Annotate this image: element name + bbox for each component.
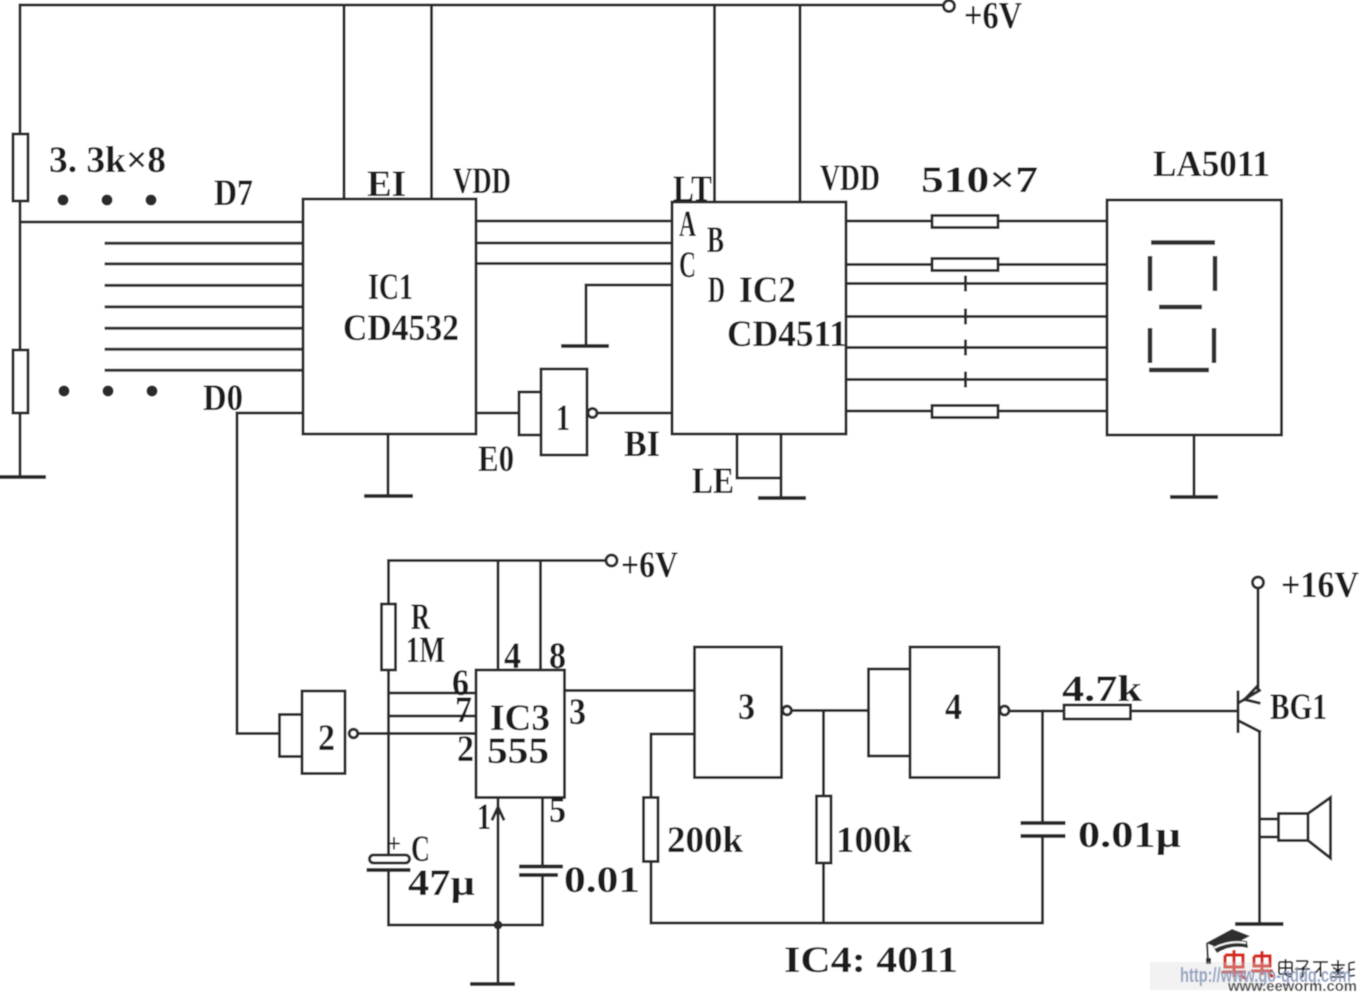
capacitor C 47u	[370, 855, 410, 863]
wire cap to rail	[387, 871, 390, 925]
capacitor 0.01	[521, 867, 561, 876]
svg-text:0.01µ: 0.01µ	[1078, 815, 1181, 856]
wire pin7	[389, 715, 477, 718]
svg-text:LA5011: LA5011	[1153, 144, 1270, 185]
NAND gate 3	[695, 647, 782, 778]
svg-text:BG1: BG1	[1270, 687, 1327, 728]
svg-text:5: 5	[549, 790, 566, 831]
dashed ellipsis line	[964, 277, 967, 386]
NAND gate 4	[869, 669, 911, 756]
ground IC1	[387, 434, 390, 494]
wire collector	[1257, 588, 1260, 691]
svg-text:IC1: IC1	[368, 267, 413, 308]
wire pin1 stub	[497, 798, 500, 926]
svg-text:510×7: 510×7	[921, 160, 1038, 201]
svg-text:LT: LT	[673, 169, 712, 210]
segment wire b	[846, 263, 1107, 266]
svg-text:1: 1	[556, 398, 570, 439]
wire LT stub	[713, 5, 716, 202]
wire D7	[20, 221, 303, 224]
wire gate4 out	[1009, 710, 1064, 713]
segment wire e	[846, 346, 1107, 349]
resistor 3.3k upper	[13, 134, 28, 201]
svg-text:B: B	[707, 220, 724, 261]
svg-text:200k: 200k	[667, 820, 743, 861]
wire A	[476, 220, 672, 223]
resistor 4.7k	[1064, 705, 1131, 719]
ground left chain	[0, 475, 44, 479]
svg-text:+6V: +6V	[964, 0, 1022, 37]
wire 200k to rail	[650, 862, 653, 924]
dots row upper	[58, 195, 157, 206]
svg-text:4.7k: 4.7k	[1062, 669, 1143, 710]
svg-text:+6V: +6V	[621, 545, 678, 586]
wire emitter down	[1258, 732, 1261, 924]
svg-text:VDD: VDD	[820, 158, 880, 199]
wire VDD stub IC1	[430, 5, 433, 199]
svg-text:E0: E0	[478, 439, 514, 480]
dots row lower	[59, 386, 158, 397]
junction dot	[494, 921, 503, 930]
segment wire c	[846, 282, 1107, 285]
segment wire g	[846, 410, 1107, 413]
wire gate3 to gate4	[792, 709, 869, 712]
svg-text:2: 2	[318, 718, 335, 759]
wire 100k drop	[822, 711, 825, 797]
inverter gate 1	[519, 392, 541, 435]
svg-text:3. 3k×8: 3. 3k×8	[49, 140, 166, 181]
svg-text:1M: 1M	[406, 630, 445, 671]
svg-text:100k: 100k	[836, 820, 912, 861]
svg-text:CD4532: CD4532	[343, 308, 459, 349]
wire below lower resistor	[19, 413, 22, 474]
data line 2	[106, 242, 303, 245]
capacitor 0.01u	[1023, 823, 1064, 836]
NAND gate 2	[280, 715, 303, 757]
data line 5	[106, 305, 303, 308]
svg-text:47µ: 47µ	[408, 863, 475, 904]
resistor 100k	[817, 796, 832, 863]
ground LA5011	[1193, 435, 1196, 495]
wire 100k to rail	[822, 863, 825, 923]
svg-text:3: 3	[738, 687, 755, 728]
wire 4.7k to base	[1131, 710, 1236, 713]
wire pin2	[358, 732, 477, 735]
data line 4	[106, 284, 303, 287]
resistor R 1M	[382, 604, 396, 670]
speaker	[1279, 814, 1309, 841]
bottom rail IC4	[651, 922, 1043, 925]
svg-text:C: C	[679, 245, 696, 286]
+6V top terminal	[944, 1, 955, 12]
segment wire d	[846, 315, 1107, 318]
IC3 555 box	[476, 670, 565, 798]
svg-text:3: 3	[569, 692, 586, 733]
wire pin8 stub	[539, 561, 542, 671]
wire D	[586, 285, 672, 344]
IC2 CD4511 box	[672, 202, 846, 434]
svg-text:EI: EI	[367, 164, 406, 205]
wire gate3 lower input	[651, 734, 695, 798]
resistor 510 a	[932, 216, 998, 228]
resistor 200k	[644, 798, 659, 862]
svg-text:VDD: VDD	[453, 161, 511, 202]
svg-text:555: 555	[487, 731, 549, 772]
wire pin3 out	[565, 689, 695, 692]
wire R to cap	[387, 670, 390, 855]
svg-text:2: 2	[457, 729, 474, 770]
svg-text:D: D	[708, 270, 725, 311]
IC1 CD4532 box	[303, 199, 476, 434]
wire B	[476, 242, 672, 245]
+6V top rail wire	[20, 4, 943, 7]
svg-text:www.eeworm.com: www.eeworm.com	[1227, 979, 1357, 992]
wire 0.01u drop	[1041, 711, 1044, 823]
+6V rail 2	[389, 559, 607, 562]
wire VDD stub IC2	[799, 5, 802, 202]
resistor 510 g	[932, 406, 998, 418]
wire between resistor and D7	[19, 201, 22, 350]
wire left bus top	[19, 5, 22, 134]
svg-text:A: A	[679, 204, 696, 245]
segment wire a	[846, 220, 1107, 223]
watermark scan smear	[1150, 962, 1270, 990]
svg-text:CD4511: CD4511	[727, 314, 847, 355]
wire EI stub	[343, 5, 346, 199]
resistor 3.3k lower	[13, 350, 28, 413]
7-segment digit	[1149, 243, 1215, 371]
watermark cap icon	[1206, 929, 1250, 964]
ground D input	[563, 344, 607, 348]
+16V terminal	[1253, 577, 1264, 588]
watermark site name	[1279, 959, 1355, 978]
svg-text:D7: D7	[214, 173, 253, 214]
svg-text:IC2: IC2	[739, 270, 796, 311]
ground BG1	[1237, 922, 1282, 926]
svg-text:+16V: +16V	[1281, 565, 1359, 606]
ground 555	[497, 925, 500, 982]
speaker stubs	[1260, 819, 1279, 837]
wire EO	[476, 412, 519, 415]
svg-text:IC4: 4011: IC4: 4011	[784, 940, 958, 981]
transistor BG1	[1237, 692, 1240, 732]
segment wire f	[846, 378, 1107, 381]
wire C	[476, 262, 672, 265]
LA5011 box	[1107, 200, 1282, 435]
svg-text:0.01: 0.01	[564, 860, 640, 901]
wire pin4 stub	[497, 561, 500, 671]
LE network	[737, 434, 781, 496]
resistor 510 b	[932, 259, 998, 271]
data line 8	[106, 369, 303, 372]
svg-text:7: 7	[455, 690, 472, 731]
wire rail to R	[387, 561, 390, 605]
data line 7	[106, 348, 303, 351]
data line 3	[106, 262, 303, 265]
wire D0	[237, 413, 303, 734]
svg-text:1: 1	[477, 797, 491, 838]
wire pin6	[389, 692, 477, 695]
svg-text:4: 4	[945, 687, 962, 728]
watermark chongchong red characters	[1222, 950, 1273, 979]
pin1 arrow	[493, 807, 504, 819]
svg-text:LE: LE	[692, 461, 734, 502]
+6V terminal 2	[606, 555, 617, 566]
data line 6	[106, 327, 303, 330]
wire pin5 stub	[541, 798, 544, 867]
bottom rail 555	[389, 924, 541, 927]
wire BI	[597, 412, 672, 415]
svg-text:BI: BI	[624, 424, 660, 465]
